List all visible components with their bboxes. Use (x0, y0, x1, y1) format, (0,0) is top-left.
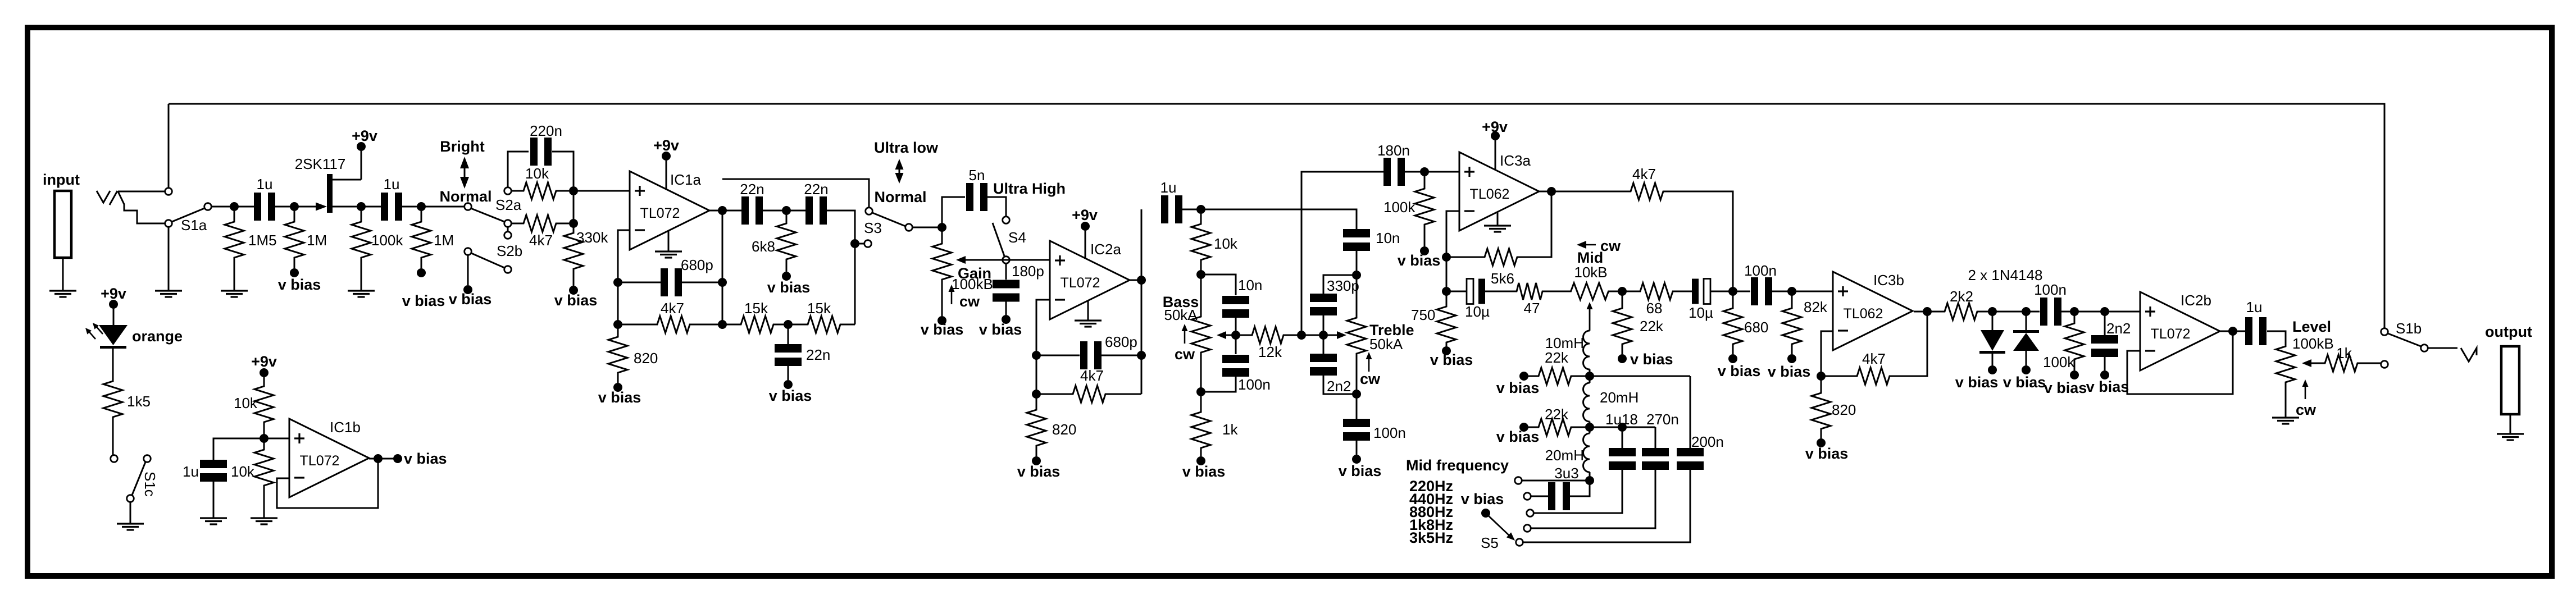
svg-text:IC3a: IC3a (1500, 152, 1531, 169)
svg-text:1u: 1u (2246, 299, 2263, 315)
resistor 47 (1514, 283, 1545, 300)
+9v (357, 142, 366, 151)
pot Mid 10kB (1568, 283, 1612, 300)
resistor 4k7 normal (511, 223, 522, 225)
capacitor 270n (1642, 448, 1669, 456)
v bias (2070, 370, 2079, 379)
svg-text:680: 680 (1744, 319, 1768, 336)
capacitor 100n out (2040, 298, 2047, 326)
svg-text:v bias: v bias (1496, 379, 1540, 396)
wire (2220, 331, 2246, 332)
node (1196, 387, 1205, 396)
inductor 20mH a (1589, 376, 1591, 383)
v bias (1817, 438, 1826, 447)
wire (1545, 291, 1571, 292)
v bias (1519, 423, 1528, 432)
ground (117, 523, 144, 524)
resistor 820 ic3b (1821, 376, 1822, 393)
resistor 1M5 (234, 211, 235, 222)
node (613, 320, 622, 329)
ground stub ic1a (668, 231, 670, 251)
node ic3a out (1547, 187, 1556, 196)
capacitor 5n (942, 197, 965, 227)
resistor 1k5 (103, 378, 122, 420)
wire (275, 206, 294, 208)
svg-text:1k: 1k (1222, 421, 1238, 438)
op-amp IC1a (630, 171, 709, 250)
node (1817, 372, 1826, 381)
svg-text:cw: cw (959, 293, 980, 310)
svg-text:1u18: 1u18 (1605, 411, 1638, 428)
wire (369, 458, 398, 460)
svg-text:IC1b: IC1b (330, 419, 361, 436)
svg-text:4k7: 4k7 (529, 232, 553, 249)
op-amp IC3b (1833, 272, 1913, 350)
switch S1b (2381, 328, 2388, 336)
resistor 68 (1637, 283, 1676, 300)
resistor 6k8 (786, 211, 788, 223)
svg-text:50kA: 50kA (1369, 336, 1403, 353)
v bias (1618, 354, 1627, 363)
svg-text:4k7: 4k7 (1632, 166, 1656, 182)
switch S1a (165, 188, 172, 195)
svg-text:v bias: v bias (449, 291, 492, 308)
resistor 22k mid (1622, 291, 1623, 308)
svg-text:S3: S3 (864, 219, 882, 236)
input jack (54, 191, 71, 258)
wire (2267, 331, 2286, 346)
wire (1608, 291, 1639, 292)
v bias (1196, 456, 1205, 465)
svg-text:IC3b: IC3b (1873, 272, 1904, 289)
capacitor 10u b (1692, 279, 1699, 304)
switch S4 (1003, 217, 1010, 224)
wire (168, 227, 170, 291)
wire (1590, 376, 1690, 377)
v bias (1787, 354, 1796, 363)
svg-text:TL062: TL062 (1844, 306, 1883, 322)
svg-text:1u: 1u (1160, 179, 1177, 196)
wire (2026, 311, 2040, 313)
svg-text:10k: 10k (525, 165, 549, 182)
wire minus ic1a (618, 230, 630, 324)
wire (1992, 311, 2026, 313)
wire minus ic3a (1446, 211, 1459, 291)
wire (1539, 191, 1629, 193)
wire (1405, 171, 1459, 173)
wire (2510, 414, 2511, 434)
svg-text:22n: 22n (806, 346, 830, 363)
svg-text:+9v: +9v (352, 127, 377, 144)
svg-text:100n: 100n (1238, 376, 1271, 393)
svg-text:22k: 22k (1545, 406, 1569, 423)
inductor 20mH b (1589, 427, 1591, 433)
wire (361, 206, 381, 208)
capacitor 180n (1383, 158, 1391, 186)
op-amp IC1b (289, 419, 369, 497)
svg-text:1k: 1k (2336, 345, 2352, 362)
wire (467, 255, 469, 285)
resistor 680 (1732, 291, 1734, 308)
node (1988, 307, 1997, 316)
ground stub ic2a (1087, 301, 1089, 321)
capacitor 1u18 (1609, 448, 1636, 456)
ground (251, 517, 277, 519)
svg-text:50kA: 50kA (1164, 306, 1198, 323)
svg-text:10k: 10k (231, 463, 255, 480)
svg-text:15k: 15k (744, 300, 768, 317)
ground (200, 517, 227, 519)
v bias (1002, 315, 1011, 324)
svg-text:Ultra High: Ultra High (993, 180, 1066, 197)
diode D2 (2026, 312, 2027, 330)
svg-text:+9v: +9v (251, 353, 277, 370)
svg-text:2k2: 2k2 (1950, 288, 1973, 305)
resistor 10k bright (511, 190, 522, 192)
+9v ic1a (662, 152, 671, 161)
wire bass wiper (1223, 335, 1236, 336)
capacitor 10n bass (1201, 274, 1236, 295)
svg-text:v bias: v bias (554, 292, 598, 309)
svg-text:v bias: v bias (767, 279, 811, 296)
svg-text:1M5: 1M5 (248, 232, 277, 249)
svg-text:68: 68 (1646, 300, 1663, 317)
node (1787, 287, 1796, 296)
svg-text:20mH: 20mH (1545, 447, 1584, 464)
svg-text:Bright: Bright (440, 138, 484, 155)
wire (827, 211, 855, 324)
svg-text:6k8: 6k8 (752, 238, 775, 255)
svg-text:TL072: TL072 (640, 205, 680, 221)
capacitor 100n treble (1356, 394, 1358, 420)
v bias (1728, 354, 1737, 363)
switch S1c (144, 455, 151, 463)
node (1442, 287, 1451, 296)
v bias (1988, 365, 1997, 374)
svg-text:750: 750 (1411, 306, 1435, 323)
capacitor 100n bass (1235, 335, 1237, 354)
capacitor 22n c (788, 324, 789, 344)
wire (2428, 347, 2457, 349)
wire treble rail (1301, 172, 1383, 335)
resistor 22k tap1 (1536, 368, 1574, 385)
pot Treble 50kA (1356, 275, 1358, 318)
wire (574, 190, 630, 192)
svg-text:82k: 82k (1804, 299, 1828, 315)
capacitor 100n mid (1733, 291, 1750, 292)
svg-text:5n: 5n (969, 167, 985, 184)
node ic1a out (718, 206, 727, 215)
svg-text:100kB: 100kB (952, 276, 993, 292)
wire (1182, 209, 1201, 211)
v bias (463, 285, 472, 294)
svg-text:100k: 100k (2043, 354, 2075, 370)
wire (709, 210, 741, 212)
node (1352, 271, 1361, 280)
node (782, 206, 791, 215)
node (1352, 390, 1361, 399)
svg-text:v bias: v bias (1496, 428, 1540, 445)
inductor 10mH (1583, 331, 1590, 369)
resistor 100k ic3a (1424, 172, 1426, 189)
capacitor 10u a (1446, 291, 1467, 292)
wire minus ic2a (1036, 300, 1050, 394)
svg-text:Ultra low: Ultra low (874, 139, 939, 156)
node (1585, 423, 1594, 432)
node (230, 202, 239, 211)
+9v ic3a (1491, 131, 1500, 140)
svg-text:180p: 180p (1012, 263, 1044, 280)
v bias (2022, 365, 2031, 374)
svg-text:S5: S5 (1481, 534, 1499, 551)
wire (1589, 308, 1591, 331)
output jack (2501, 346, 2519, 414)
switch S5 contact 2 (1524, 493, 1531, 500)
terminal (111, 455, 118, 463)
svg-text:Mid frequency: Mid frequency (1406, 457, 1509, 474)
svg-text:10n: 10n (1376, 230, 1400, 246)
arrow ultra low (899, 167, 900, 175)
svg-text:v bias: v bias (1430, 351, 1473, 368)
ground (221, 290, 248, 291)
svg-text:input: input (43, 171, 80, 188)
svg-text:+9v: +9v (653, 137, 679, 154)
resistor 15k b (788, 324, 806, 326)
svg-text:S1b: S1b (2396, 320, 2422, 337)
node (1618, 287, 1627, 296)
node (2022, 307, 2031, 316)
svg-text:v bias: v bias (1461, 491, 1504, 507)
svg-text:S2a: S2a (495, 196, 522, 213)
capacitor 220n (508, 152, 529, 187)
wire (113, 309, 115, 325)
svg-text:1u: 1u (183, 463, 199, 480)
svg-text:output: output (2485, 323, 2532, 340)
wire (402, 206, 421, 208)
svg-text:v bias: v bias (404, 450, 447, 467)
wire (2061, 311, 2140, 313)
svg-text:TL072: TL072 (2151, 326, 2191, 342)
wire (1590, 427, 1655, 428)
wire treble wiper (1323, 335, 1337, 336)
wire (913, 227, 942, 228)
svg-text:v bias: v bias (2003, 374, 2046, 391)
wire (62, 258, 64, 291)
wire (213, 438, 264, 460)
svg-text:Normal: Normal (439, 188, 491, 205)
v bias (1519, 372, 1528, 381)
svg-text:1u: 1u (384, 176, 400, 193)
switch S5 contact 5 (1516, 539, 1523, 546)
resistor 1M a (294, 211, 295, 222)
capacitor 1u input (254, 193, 261, 221)
capacitor 1u out (2245, 317, 2252, 345)
node (2100, 307, 2109, 316)
diode D1 (1992, 312, 1994, 330)
svg-text:v bias: v bias (598, 389, 641, 406)
resistor 1k bass (1200, 392, 1202, 412)
v bias (1032, 456, 1041, 465)
svg-text:22n: 22n (804, 181, 828, 198)
wire bridge top (722, 179, 869, 207)
capacitor 1u fet out (381, 193, 388, 221)
+9v ic2a (1081, 222, 1090, 231)
svg-text:IC2a: IC2a (1090, 241, 1121, 258)
resistor 15k a (722, 324, 739, 326)
svg-text:cw: cw (2296, 401, 2316, 418)
svg-text:v bias: v bias (979, 321, 1022, 338)
resistor 820 ic1a (617, 324, 619, 337)
svg-text:3k5Hz: 3k5Hz (1409, 529, 1453, 546)
svg-text:v bias: v bias (1768, 363, 1811, 380)
svg-text:330p: 330p (1327, 277, 1359, 294)
svg-text:v bias: v bias (1630, 351, 1673, 368)
wire tap 1k8Hz (1531, 470, 1655, 528)
node ic2a out (1137, 276, 1146, 285)
pot Gain 100kB (941, 227, 943, 244)
svg-text:IC2b: IC2b (2181, 292, 2211, 309)
svg-text:v bias: v bias (402, 292, 445, 309)
v bias (417, 268, 426, 277)
v bias (1442, 346, 1451, 355)
svg-text:10k: 10k (234, 395, 258, 411)
svg-text:15k: 15k (807, 300, 831, 317)
led orange (99, 325, 128, 345)
node (850, 239, 859, 248)
svg-text:820: 820 (634, 350, 658, 367)
resistor 10k upper (263, 377, 265, 386)
node (569, 219, 578, 228)
input jack tip contact (97, 191, 117, 205)
switch S5 contact 4 (1524, 525, 1531, 532)
wire (118, 191, 165, 193)
v bias (937, 316, 946, 325)
svg-text:1M: 1M (307, 232, 327, 249)
svg-text:100n: 100n (1373, 424, 1406, 441)
svg-text:820: 820 (1832, 401, 1856, 418)
node (1585, 476, 1594, 485)
node ic3b out (1923, 307, 1932, 316)
svg-text:v bias: v bias (278, 276, 321, 293)
terminal (2381, 361, 2388, 368)
svg-text:1k5: 1k5 (127, 393, 151, 410)
svg-text:12k: 12k (1258, 344, 1282, 360)
wire (1128, 280, 1141, 281)
wire (212, 206, 254, 208)
node (1032, 390, 1041, 399)
svg-text:TL072: TL072 (300, 453, 340, 469)
wire feedback ic2b (2127, 331, 2233, 394)
wire (855, 243, 864, 245)
svg-text:22k: 22k (1640, 318, 1664, 335)
svg-text:2n2: 2n2 (2106, 320, 2131, 337)
input jack ring contact (118, 191, 165, 223)
resistor 82k (1791, 291, 1793, 308)
wire tap 880Hz (1534, 470, 1622, 513)
svg-text:270n: 270n (1646, 411, 1679, 428)
node (374, 454, 383, 463)
svg-text:100n: 100n (1744, 262, 1777, 279)
wire (763, 210, 805, 212)
svg-text:cw: cw (1600, 237, 1621, 254)
svg-text:820: 820 (1052, 421, 1076, 438)
resistor 330k (573, 223, 575, 233)
svg-text:+9v: +9v (1072, 207, 1098, 223)
svg-text:10µ: 10µ (1465, 303, 1490, 320)
arrow cw mid (1584, 244, 1596, 246)
wire (722, 211, 723, 324)
svg-text:S4: S4 (1008, 229, 1026, 246)
node (393, 454, 402, 463)
svg-text:5k6: 5k6 (1491, 270, 1514, 287)
wire (1201, 209, 1357, 229)
capacitor 10n treble (1356, 228, 1358, 230)
node (417, 202, 426, 211)
node (718, 320, 727, 329)
svg-text:20mH: 20mH (1600, 389, 1639, 406)
capacitor 2n2 treble (1323, 335, 1325, 354)
node (1442, 253, 1451, 262)
switch S3 (866, 208, 873, 215)
svg-text:2SK117: 2SK117 (295, 155, 346, 172)
wire (264, 438, 289, 440)
svg-text:1M: 1M (434, 232, 454, 249)
node (1728, 287, 1737, 296)
wire (1141, 209, 1143, 394)
node (718, 278, 727, 287)
svg-text:v bias: v bias (769, 387, 812, 404)
svg-text:4k7: 4k7 (1080, 367, 1104, 384)
wire feedback ic1b (277, 459, 378, 508)
link S2a-S2b (504, 232, 512, 239)
svg-text:10n: 10n (1238, 277, 1262, 294)
svg-text:200n: 200n (1691, 433, 1724, 450)
capacitor 680p ic2a (1036, 355, 1080, 356)
svg-text:680p: 680p (1105, 333, 1137, 350)
ground (155, 290, 182, 291)
svg-text:2 x 1N4148: 2 x 1N4148 (1968, 267, 2043, 283)
svg-text:cw: cw (1360, 370, 1381, 387)
svg-text:100k: 100k (1383, 199, 1416, 216)
op-amp IC2b (2140, 292, 2220, 370)
svg-text:v bias: v bias (1339, 463, 1382, 479)
v bias (1352, 455, 1361, 464)
arrow bright (464, 165, 466, 180)
svg-text:v bias: v bias (1017, 463, 1061, 480)
svg-text:1u: 1u (257, 176, 273, 193)
resistor 100k drain (361, 211, 362, 222)
svg-text:3u3: 3u3 (1554, 465, 1578, 482)
node bass wiper (1231, 331, 1240, 340)
ground (348, 290, 375, 291)
op-amp IC2a (1050, 241, 1130, 319)
pot Level 100kB (2276, 344, 2295, 385)
node (784, 320, 793, 329)
svg-text:100n: 100n (2034, 281, 2067, 298)
wire gain wiper (963, 259, 1050, 261)
svg-text:4k7: 4k7 (661, 300, 684, 317)
capacitor 1u ic2a out (1161, 195, 1168, 223)
svg-text:22n: 22n (740, 181, 764, 198)
svg-text:47: 47 (1524, 300, 1540, 317)
node ic2b out (2228, 327, 2237, 336)
svg-text:10µ: 10µ (1688, 304, 1713, 321)
svg-text:TL062: TL062 (1470, 186, 1510, 202)
resistor 4k7 ic3b fb (1821, 376, 1855, 377)
wire tap 3k5Hz (1523, 470, 1690, 542)
node (1585, 372, 1594, 381)
op-amp IC3a (1459, 152, 1539, 231)
